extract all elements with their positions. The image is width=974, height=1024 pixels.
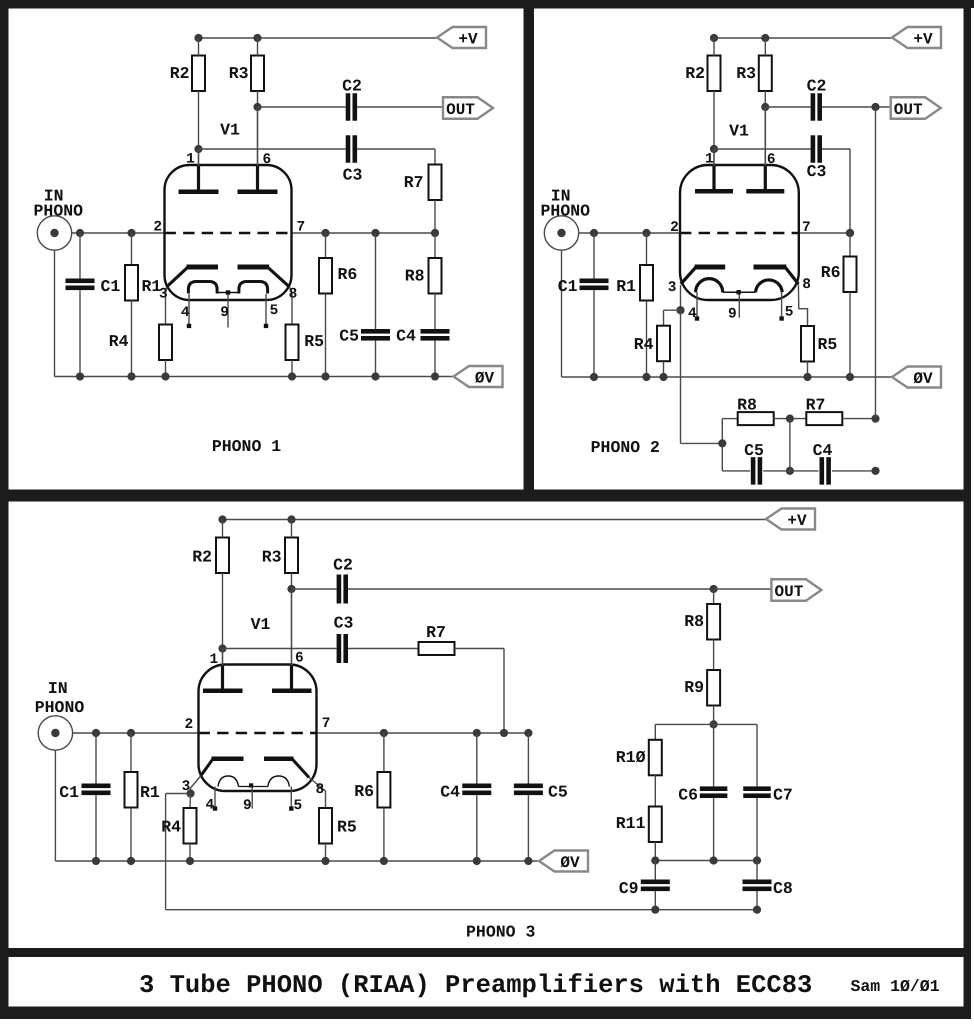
- junction: [710, 145, 718, 153]
- junction: [431, 372, 439, 380]
- wire: [807, 362, 809, 378]
- wire: [654, 775, 656, 806]
- wire: [527, 795, 529, 861]
- wire feedback: [166, 793, 191, 795]
- resistor R8: [738, 412, 774, 425]
- resistor R3: [251, 56, 264, 92]
- svg-text:R6: R6: [354, 782, 374, 801]
- net +V: [437, 27, 486, 48]
- junction: [846, 229, 854, 237]
- resistor R11: [649, 807, 662, 843]
- svg-text:C3: C3: [807, 162, 827, 181]
- tube V1 cathode diagonals: [167, 267, 290, 287]
- wire: [222, 520, 224, 538]
- pin 4 pad: [187, 324, 191, 328]
- junction: [642, 229, 650, 237]
- junction: [287, 515, 295, 523]
- junction: [76, 229, 84, 237]
- capacitor C5: [514, 784, 543, 796]
- junction: [371, 229, 379, 237]
- svg-text:C4: C4: [440, 783, 460, 802]
- wire: [79, 233, 81, 279]
- tube V1 anode pin 1: [695, 149, 733, 194]
- svg-text:C2: C2: [807, 77, 827, 96]
- wire: [799, 232, 850, 234]
- junction: [127, 857, 135, 865]
- wire: [663, 361, 665, 377]
- svg-text:PHONO 1: PHONO 1: [212, 437, 281, 456]
- junction: [761, 34, 769, 42]
- net 0V: [454, 366, 503, 387]
- tube V1 anode pin 1: [203, 649, 243, 694]
- wire: [130, 808, 132, 862]
- capacitor C2: [811, 93, 822, 121]
- junction: [161, 372, 169, 380]
- wire: [654, 891, 656, 910]
- wire: [434, 149, 436, 165]
- svg-text:7: 7: [322, 716, 331, 732]
- wire: [842, 418, 875, 420]
- wire: [455, 648, 505, 650]
- resistor R1: [125, 265, 138, 301]
- wire: [713, 589, 715, 604]
- junction: [753, 906, 761, 914]
- resistor R2: [708, 56, 721, 92]
- wire: [714, 588, 772, 590]
- svg-text:C9: C9: [619, 879, 639, 898]
- tube V1 cathode bars: [212, 757, 294, 762]
- svg-text:R5: R5: [337, 818, 357, 837]
- pin 4 pad: [213, 806, 217, 810]
- junction: [803, 373, 811, 381]
- svg-text:R7: R7: [404, 173, 424, 192]
- connector IN PHONO: [34, 187, 84, 251]
- wire: [165, 794, 167, 910]
- wire: [713, 91, 715, 149]
- wire: [291, 360, 293, 377]
- wire pin 4: [214, 787, 216, 807]
- svg-text:4: 4: [688, 306, 697, 322]
- junction: [718, 439, 726, 447]
- junction: [846, 229, 854, 237]
- svg-text:C2: C2: [342, 77, 362, 96]
- svg-text:V1: V1: [729, 122, 749, 141]
- wire pin 3 to R4: [664, 309, 681, 311]
- wire: [789, 419, 791, 471]
- wire pin 5: [265, 294, 267, 324]
- svg-text:6: 6: [767, 152, 776, 168]
- wire: [317, 732, 529, 734]
- tube V1 anode pin 6: [746, 107, 784, 194]
- connector IN PHONO: [541, 187, 591, 251]
- junction: [710, 585, 718, 593]
- svg-text:ØV: ØV: [913, 370, 933, 388]
- wire node row: [655, 723, 757, 725]
- svg-text:C1: C1: [558, 277, 578, 296]
- resistor R1: [125, 772, 138, 808]
- wire: [291, 573, 293, 589]
- wire: [765, 106, 810, 108]
- wire: [258, 106, 346, 108]
- tube V1 cathode diagonals: [201, 759, 309, 778]
- svg-text:8: 8: [802, 277, 811, 293]
- wire: [325, 844, 327, 862]
- svg-text:9: 9: [243, 798, 252, 814]
- svg-text:PHONO 2: PHONO 2: [591, 438, 660, 457]
- wire pin 8: [290, 287, 293, 325]
- junction: [524, 729, 532, 737]
- junction: [127, 229, 135, 237]
- junction: [76, 372, 84, 380]
- svg-text:R1Ø: R1Ø: [616, 748, 646, 767]
- wire: [325, 233, 327, 258]
- tube V1 heater: [696, 279, 783, 295]
- svg-text:C5: C5: [339, 327, 359, 346]
- junction: [871, 467, 879, 475]
- junction: [92, 729, 100, 737]
- svg-text:ØV: ØV: [475, 369, 495, 387]
- junction: [321, 857, 329, 865]
- svg-text:8: 8: [316, 782, 325, 798]
- svg-text:9: 9: [220, 305, 229, 321]
- wire: [593, 290, 595, 377]
- svg-text:R4: R4: [161, 818, 181, 837]
- wire: [714, 148, 811, 150]
- resistor R9: [707, 670, 720, 706]
- svg-text:3: 3: [668, 280, 677, 296]
- wire: [654, 724, 656, 739]
- capacitor C3: [811, 135, 822, 163]
- wire: [257, 38, 259, 56]
- svg-text:C6: C6: [678, 786, 698, 805]
- wire: [73, 732, 199, 734]
- junction: [127, 372, 135, 380]
- pin 5 pad: [779, 316, 783, 320]
- svg-text:8: 8: [289, 287, 298, 303]
- resistor R8: [707, 604, 720, 640]
- wire: [646, 301, 648, 378]
- junction: [710, 856, 718, 864]
- junction: [253, 34, 261, 42]
- wire lower node row: [655, 860, 757, 862]
- resistor R7: [806, 412, 842, 425]
- resistor R7: [419, 642, 455, 655]
- svg-text:3: 3: [159, 287, 168, 303]
- svg-text:C7: C7: [773, 786, 793, 805]
- junction: [380, 729, 388, 737]
- svg-text:C3: C3: [343, 166, 363, 185]
- junction: [761, 103, 769, 111]
- resistor R4: [184, 808, 197, 844]
- resistor R4: [159, 325, 172, 361]
- wire: [166, 909, 757, 911]
- junction: [651, 856, 659, 864]
- svg-text:6: 6: [262, 152, 271, 168]
- svg-text:R2: R2: [685, 64, 705, 83]
- svg-text:6: 6: [295, 651, 304, 667]
- wire: [849, 292, 851, 377]
- wire: [714, 37, 892, 39]
- wire: [199, 148, 346, 150]
- resistor R3: [285, 538, 298, 574]
- tube V1 cathode diagonals: [681, 267, 799, 284]
- wire: [849, 233, 851, 257]
- resistor R6: [377, 772, 390, 808]
- svg-text:PHONO 3: PHONO 3: [466, 923, 535, 942]
- svg-text:R5: R5: [304, 332, 324, 351]
- svg-text:C5: C5: [744, 441, 764, 460]
- wire: [325, 294, 327, 377]
- tube V1 grid (dashed): [199, 732, 317, 734]
- svg-text:OUT: OUT: [894, 101, 923, 119]
- wire: [72, 232, 165, 234]
- wire riser to OUT: [875, 107, 877, 419]
- resistor R4: [657, 326, 670, 362]
- wire: [713, 798, 715, 861]
- junction: [590, 373, 598, 381]
- resistor R2: [192, 56, 205, 92]
- svg-text:R6: R6: [338, 265, 358, 284]
- svg-text:+V: +V: [458, 30, 478, 48]
- capacitor C1: [66, 279, 95, 291]
- svg-text:R6: R6: [821, 263, 841, 282]
- svg-text:R9: R9: [684, 678, 704, 697]
- wire: [774, 418, 807, 420]
- junction: [676, 306, 684, 314]
- svg-text:4: 4: [181, 305, 190, 321]
- wire: [503, 649, 505, 734]
- junction: [194, 34, 202, 42]
- wire pin 5: [290, 787, 292, 807]
- resistor R1: [640, 265, 653, 301]
- wire: [832, 470, 876, 472]
- wire pin 9: [251, 788, 253, 809]
- svg-text:9: 9: [728, 307, 737, 323]
- svg-text:R4: R4: [634, 335, 654, 354]
- wire: [79, 290, 81, 376]
- svg-text:R7: R7: [806, 396, 826, 415]
- svg-text:R5: R5: [818, 335, 838, 354]
- right edge strip: [971, 8, 974, 1024]
- wire pin 8: [798, 284, 807, 326]
- wire: [434, 233, 436, 258]
- junction: [871, 415, 879, 423]
- net OUT: [443, 97, 493, 119]
- svg-text:PHONO: PHONO: [541, 202, 591, 221]
- junction: [659, 373, 667, 381]
- svg-text:R3: R3: [229, 64, 249, 83]
- capacitor C5: [751, 457, 762, 485]
- svg-text:C8: C8: [773, 879, 793, 898]
- title bar background: [9, 957, 964, 1007]
- wire: [348, 648, 419, 650]
- junction: [710, 34, 718, 42]
- wire: [713, 640, 715, 671]
- wire: [198, 91, 200, 149]
- wire: [822, 106, 891, 108]
- svg-text:R7: R7: [426, 623, 446, 642]
- svg-text:R1: R1: [616, 277, 636, 296]
- wire: [579, 232, 680, 234]
- junction: [473, 729, 481, 737]
- wire: [593, 233, 595, 279]
- wire: [54, 250, 56, 376]
- svg-text:V1: V1: [251, 615, 271, 634]
- capacitor C3: [337, 634, 348, 663]
- wire: [646, 233, 648, 265]
- junction: [473, 857, 481, 865]
- panel 1 background: [9, 9, 524, 490]
- svg-text:R4: R4: [109, 332, 129, 351]
- wire: [199, 37, 438, 39]
- junction: [371, 372, 379, 380]
- wire: [721, 419, 723, 471]
- wire: [55, 376, 454, 378]
- tube V1 cathode bars: [187, 265, 270, 270]
- svg-text:R2: R2: [170, 64, 190, 83]
- wire: [223, 519, 767, 521]
- wire: [292, 588, 337, 590]
- resistor R6: [844, 257, 857, 293]
- wire: [198, 38, 200, 56]
- wire: [713, 706, 715, 725]
- wire: [561, 250, 563, 377]
- net +V: [892, 27, 941, 48]
- svg-text:Sam 1Ø/Ø1: Sam 1Ø/Ø1: [851, 977, 940, 996]
- wire: [357, 148, 435, 150]
- wire: [722, 418, 737, 420]
- svg-text:C1: C1: [101, 277, 121, 296]
- svg-text:PHONO: PHONO: [35, 698, 85, 717]
- junction: [218, 644, 226, 652]
- capacitor C3: [346, 135, 357, 163]
- svg-text:R2: R2: [192, 548, 212, 567]
- tube V1 grid (dashed): [165, 232, 292, 234]
- svg-text:OUT: OUT: [774, 583, 803, 601]
- svg-text:C4: C4: [396, 327, 416, 346]
- wire: [383, 808, 385, 862]
- junction: [642, 373, 650, 381]
- wire: [476, 733, 478, 784]
- wire pin 3: [166, 287, 167, 325]
- wire: [292, 232, 436, 234]
- tube V1 anode pin 1: [179, 149, 219, 194]
- svg-text:2: 2: [184, 717, 193, 733]
- capacitor C8: [743, 880, 772, 892]
- panel 2 background: [534, 9, 964, 490]
- wire: [756, 724, 758, 786]
- wire: [663, 310, 665, 326]
- svg-text:2: 2: [670, 220, 679, 236]
- wire pin 3: [680, 285, 682, 310]
- wire: [822, 148, 850, 150]
- capacitor C2: [346, 93, 357, 121]
- svg-text:C2: C2: [333, 556, 353, 575]
- svg-text:3 Tube PHONO (RIAA) Preamplifi: 3 Tube PHONO (RIAA) Preamplifiers with E…: [139, 971, 812, 1000]
- wire: [764, 38, 766, 56]
- wire: [763, 470, 790, 472]
- wire: [790, 470, 819, 472]
- panel 3 background: [9, 502, 964, 949]
- wire pin 5: [781, 292, 783, 316]
- wire: [189, 844, 191, 862]
- junction: [321, 229, 329, 237]
- wire: [257, 91, 259, 107]
- junction: [127, 729, 135, 737]
- wire: [722, 470, 750, 472]
- svg-text:R8: R8: [405, 267, 425, 286]
- wire: [434, 294, 436, 330]
- svg-text:R11: R11: [616, 814, 646, 833]
- svg-text:7: 7: [802, 220, 811, 236]
- wire: [756, 798, 758, 861]
- wire: [375, 341, 377, 377]
- wire: [130, 733, 132, 772]
- tube V1 grid (dashed): [680, 232, 799, 234]
- junction: [524, 857, 532, 865]
- capacitor C4: [462, 784, 491, 796]
- svg-text:C3: C3: [334, 614, 354, 633]
- junction: [92, 857, 100, 865]
- capacitor C4: [421, 329, 450, 341]
- junction: [710, 720, 718, 728]
- wire: [434, 200, 436, 233]
- svg-text:V1: V1: [220, 121, 240, 140]
- wire: [223, 648, 337, 650]
- wire: [849, 149, 851, 233]
- wire pin 3 riser: [680, 310, 682, 443]
- wire: [756, 861, 758, 880]
- svg-text:PHONO: PHONO: [34, 202, 84, 221]
- svg-text:R8: R8: [684, 612, 704, 631]
- svg-text:R3: R3: [262, 548, 282, 567]
- junction: [186, 857, 194, 865]
- svg-text:C1: C1: [59, 783, 79, 802]
- junction: [786, 415, 794, 423]
- wire: [131, 301, 133, 377]
- resistor R3: [759, 56, 772, 92]
- svg-text:1: 1: [210, 652, 219, 668]
- junction: [287, 585, 295, 593]
- wire pin 9: [227, 295, 229, 328]
- net +V: [766, 509, 815, 530]
- wire: [764, 91, 766, 107]
- wire: [681, 442, 723, 444]
- svg-text:R8: R8: [737, 396, 757, 415]
- connector IN PHONO: [35, 679, 85, 750]
- junction: [253, 103, 261, 111]
- pin 5 pad: [264, 324, 268, 328]
- junction: [321, 372, 329, 380]
- wire: [95, 733, 97, 784]
- wire: [527, 733, 529, 784]
- wire: [189, 794, 192, 809]
- junction: [288, 372, 296, 380]
- net OUT: [771, 579, 821, 601]
- resistor R5: [286, 325, 299, 361]
- wire: [55, 860, 539, 862]
- wire: [713, 38, 715, 56]
- svg-text:5: 5: [270, 303, 279, 319]
- junction: [186, 789, 194, 797]
- wire: [222, 573, 224, 649]
- net 0V: [539, 851, 588, 872]
- resistor R2: [216, 538, 229, 574]
- net 0V: [892, 367, 941, 388]
- svg-text:+V: +V: [913, 30, 933, 48]
- wire: [654, 842, 656, 861]
- resistor R6: [319, 258, 332, 294]
